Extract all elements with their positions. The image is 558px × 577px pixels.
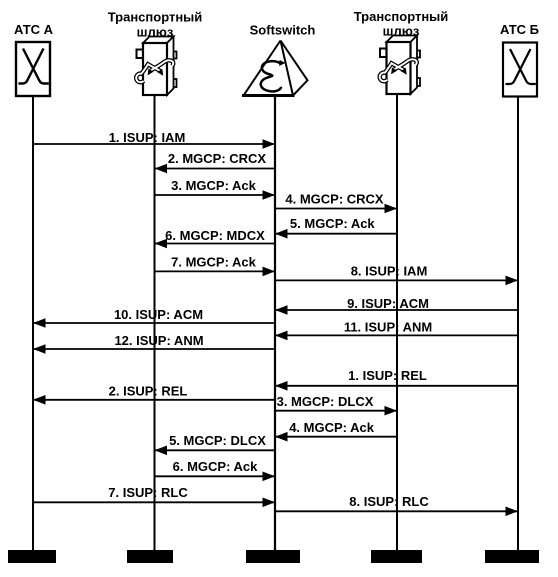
svg-text:АТС Б: АТС Б: [500, 22, 539, 37]
svg-text:1. ISUP: IAM: 1. ISUP: IAM: [109, 130, 186, 145]
svg-text:9. ISUP: ACM: 9. ISUP: ACM: [347, 296, 429, 311]
svg-text:6. MGCP: MDCX: 6. MGCP: MDCX: [165, 228, 265, 243]
svg-text:7. MGCP: Ack: 7. MGCP: Ack: [171, 255, 257, 270]
svg-text:12. ISUP: ANM: 12. ISUP: ANM: [114, 333, 203, 348]
svg-text:8. ISUP: IAM: 8. ISUP: IAM: [351, 264, 428, 279]
svg-text:1. ISUP: REL: 1. ISUP: REL: [348, 368, 427, 383]
svg-text:5. MGCP: Ack: 5. MGCP: Ack: [290, 216, 376, 231]
svg-text:2. MGCP: CRCX: 2. MGCP: CRCX: [168, 151, 267, 166]
svg-text:11. ISUP: ANM: 11. ISUP: ANM: [344, 320, 432, 335]
svg-text:3. MGCP: Ack: 3. MGCP: Ack: [171, 178, 257, 193]
svg-text:4. MGCP: CRCX: 4. MGCP: CRCX: [285, 192, 384, 207]
svg-text:8. ISUP: RLC: 8. ISUP: RLC: [349, 494, 429, 509]
svg-text:5. MGCP: DLCX: 5. MGCP: DLCX: [169, 433, 266, 448]
svg-text:7. ISUP: RLC: 7. ISUP: RLC: [108, 485, 188, 500]
svg-text:Транспортный: Транспортный: [354, 9, 449, 24]
svg-text:4. MGCP: Ack: 4. MGCP: Ack: [289, 420, 375, 435]
svg-text:Softswitch: Softswitch: [250, 23, 316, 38]
svg-text:3. MGCP: DLCX: 3. MGCP: DLCX: [277, 394, 374, 409]
svg-text:6. MGCP: Ack: 6. MGCP: Ack: [173, 459, 259, 474]
svg-text:Транспортный: Транспортный: [108, 10, 203, 25]
svg-text:10. ISUP: ACM: 10. ISUP: ACM: [114, 307, 203, 322]
svg-text:АТС А: АТС А: [14, 22, 54, 37]
svg-text:2. ISUP: REL: 2. ISUP: REL: [109, 384, 188, 399]
